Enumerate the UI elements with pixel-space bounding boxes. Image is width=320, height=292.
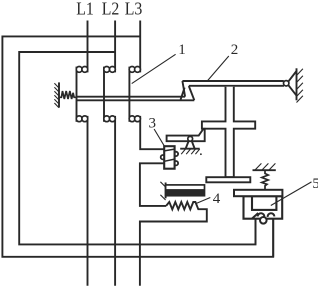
pole 2 upper contact circles <box>104 67 116 73</box>
pole 1 upper contact circles <box>76 67 87 73</box>
latch fulcrum triangle <box>186 141 189 149</box>
svg-text:5: 5 <box>312 176 318 192</box>
svg-text:2: 2 <box>231 42 239 58</box>
main contact bar (component 1) <box>77 96 186 98</box>
heater zigzag of thermal release 4 <box>140 202 207 286</box>
lever-bar link left diagonal <box>181 88 185 100</box>
label 2 leader <box>208 56 229 81</box>
lever left steep edge <box>182 81 185 97</box>
wire L1 feed <box>87 21 89 73</box>
thermal release support hatched wall <box>165 183 167 199</box>
label 3 leader <box>154 129 164 146</box>
pole 3 moving stroke <box>128 67 130 122</box>
pole 1 moving stroke <box>76 67 78 122</box>
vertical link with crossbar (union outline) <box>202 87 255 177</box>
latch hook (trip half-shaft) <box>167 129 205 141</box>
fixed pivot hatched wall <box>296 68 298 100</box>
armature bar of release 5 <box>234 190 282 196</box>
coil loop bumps of component 3 <box>161 155 165 159</box>
pole 3 upper contact circles <box>129 67 140 73</box>
spring of release 5 <box>262 170 268 190</box>
ground hatched wall left of spring <box>54 82 59 107</box>
label 4 leader <box>196 198 210 204</box>
svg-text:L3: L3 <box>125 0 143 19</box>
coil of release 5: lower dip loop <box>260 217 267 224</box>
wire L1 output <box>87 116 89 286</box>
lever bottom edge <box>189 85 284 87</box>
latch pivot circle <box>188 136 193 141</box>
wire component 3 bottom to heater 4 <box>140 163 166 206</box>
lever-bar link right diagonal <box>189 86 195 100</box>
wire L2 output <box>114 116 116 286</box>
spring of contact bar <box>59 91 77 99</box>
pole 2 moving stroke <box>103 67 105 122</box>
svg-text:1: 1 <box>178 42 186 58</box>
fixed pivot triangle <box>288 71 296 82</box>
latch fulcrum hatching <box>181 149 200 154</box>
lever of free-trip mechanism (component 2) top edge <box>182 80 283 82</box>
coil of release 5: entry diagonal <box>252 213 258 219</box>
pole 1 lower contact circles <box>76 116 87 122</box>
pole 3 lower contact circles <box>129 116 140 122</box>
svg-text:L2: L2 <box>102 0 120 19</box>
fixed pivot of lever: circle <box>284 81 289 86</box>
U-core of undervoltage release 5 <box>244 196 283 219</box>
pole 2 lower contact circles <box>104 116 116 122</box>
wire undervoltage-release outer loop (L3 to coil 5 right terminal) <box>2 36 273 256</box>
wire coil 5 right terminal <box>272 215 274 257</box>
bimetal strip of thermal release 4 <box>166 185 205 196</box>
hatched ceiling above spring of release 5 <box>253 169 276 171</box>
svg-text:L1: L1 <box>76 0 94 19</box>
overcurrent release (component 3) body <box>164 146 174 169</box>
coil turn lines of component 3 <box>164 149 174 151</box>
svg-text:4: 4 <box>213 191 221 207</box>
coil of release 5: upper loops <box>258 213 265 217</box>
latch fulcrum ground line <box>180 148 200 150</box>
label 1 leader <box>132 54 176 83</box>
wire L3 output to overcurrent release 3 <box>140 116 164 149</box>
label 5 leader <box>271 182 312 206</box>
wire undervoltage-release inner loop (L2 to coil 5 left terminal) <box>19 52 255 244</box>
wire L2 feed <box>114 21 116 73</box>
svg-text:3: 3 <box>149 115 157 131</box>
wire L3 feed <box>139 21 141 73</box>
speck near latch hatching <box>200 153 202 155</box>
foot bar of vertical link <box>206 177 250 182</box>
wire coil 5 left terminal <box>255 213 257 244</box>
